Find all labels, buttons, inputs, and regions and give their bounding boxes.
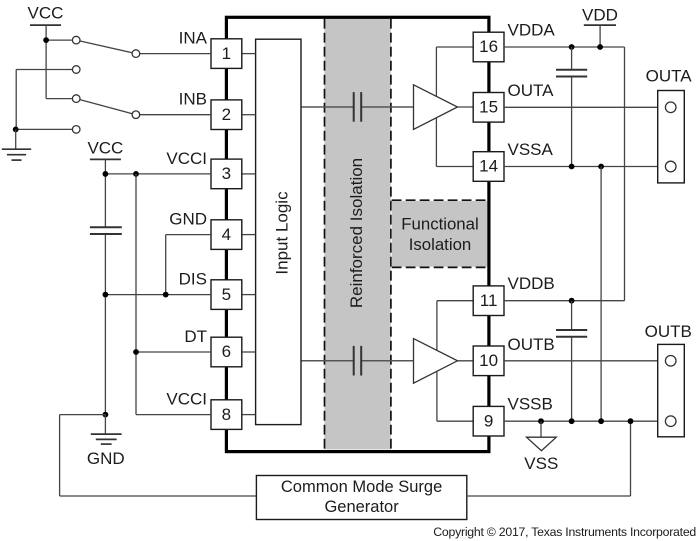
pin 16 box [473,32,504,62]
wire: VCC2 stem down to cap C1 [104,159,106,226]
wire: pin4 GND to DIS net [166,235,211,295]
label GND pin4 [169,210,207,229]
svg-text:Reinforced Isolation: Reinforced Isolation [347,158,366,308]
node: VSSB/cap junction [569,418,575,424]
svg-text:GND: GND [87,449,125,468]
label VDDA [508,21,556,40]
svg-text:16: 16 [479,37,498,56]
copyright note [433,525,696,539]
pin 1 box [211,39,242,69]
wire: cap C2 top [571,47,573,69]
label VSSB [508,395,553,414]
svg-text:2: 2 [222,105,231,124]
pin 14 box [473,152,504,182]
svg-text:VSSA: VSSA [508,140,554,159]
svg-text:OUTA: OUTA [646,67,693,86]
power symbol VCC (top left) [28,3,64,25]
wire: VCCI to DT and pin8 [136,174,211,415]
label VCCI pin8 [166,390,207,409]
capacitor C3 (VDDB bypass) [556,330,587,337]
node: VDDB/cap junction [569,298,575,304]
pin 15 box [473,93,504,123]
pin 9 box [473,406,504,436]
svg-text:VDDB: VDDB [508,274,555,293]
ground symbol GND (bottom left) [87,415,125,469]
node: pin4/DIS junction [163,292,169,298]
svg-text:8: 8 [222,405,231,424]
isolation band fill [325,19,391,450]
label VSSA [508,140,554,159]
wire: VDDB row pin11 [504,300,625,302]
node: VSSA/VSS-line junction [598,164,604,170]
connector OUTB [645,322,692,437]
svg-text:5: 5 [222,285,231,304]
svg-text:INB: INB [179,90,207,109]
svg-text:DT: DT [184,327,207,346]
node: DIS junction on GND line [103,292,109,298]
svg-text:INA: INA [179,29,208,48]
wire: pin5 to input logic [242,294,256,296]
wire: OUTB row pin10 to connector [504,360,666,362]
pin 6 box [211,337,242,367]
switch S2 contact circles [72,95,139,133]
wire: OUTA row pin15 to connector [504,106,666,108]
label OUTA [508,81,555,100]
wire: S1 ground throw [16,70,76,130]
svg-text:VDDA: VDDA [508,21,556,40]
svg-text:15: 15 [479,98,498,117]
switch S1 blade (INA) [76,40,136,54]
chip U1 body [226,17,489,451]
capacitor C1 (VCCI bypass) [90,227,122,234]
wire: VDDA row pin16 [504,47,625,301]
svg-text:Functional: Functional [401,214,478,233]
svg-text:9: 9 [484,411,493,430]
buffer A (triangle) [414,85,458,130]
capacitor C2 (VDDA bypass) [556,70,587,77]
pin 2 box [211,100,242,130]
ground symbol (top left) [2,129,31,160]
switch S1 contact circles [72,36,139,73]
node: VCCI junction on DT line [133,171,139,177]
node: VSSB/VSS-arrow junction [538,418,544,424]
pin 4 box [211,220,242,250]
label VCCI pin3 [166,149,207,168]
capacitor: isolation cap B [354,346,362,376]
wire: pin8 to input logic [242,414,256,416]
wire: GND to surge generator (left) [60,415,257,496]
input logic block [256,39,301,424]
svg-text:10: 10 [479,351,498,370]
svg-text:OUTA: OUTA [508,81,555,100]
wire: cap C3 top [571,301,573,330]
svg-text:14: 14 [479,157,498,176]
node: VDDA/VDD junction [597,44,603,50]
pin 11 box [473,286,504,316]
pin 3 box [211,159,242,189]
svg-text:VCC: VCC [28,3,64,22]
svg-text:6: 6 [222,342,231,361]
pin 10 box [473,346,504,376]
wire: cap C3 bottom to VSSB [571,338,573,422]
isolation band right dashed border [390,19,392,450]
wire: channel B signal (input logic to buffer B) [301,360,413,362]
common mode surge generator box [256,476,466,520]
power symbol VCC (second, left) [87,138,123,159]
node: ground junction [13,126,19,132]
wire: cap C2 bottom to VSSA [571,77,573,166]
svg-text:Isolation: Isolation [409,235,472,254]
wire: S2 ground throw [16,128,76,130]
wire: VSSB row pin9 [504,420,666,422]
svg-text:GND: GND [169,210,207,229]
wire: VSSA down to VSSB [600,167,602,422]
svg-text:4: 4 [222,225,231,244]
wire: cap C1 bottom to GND [104,235,106,415]
node: VCC junction [43,37,49,43]
label INA [179,29,208,48]
power symbol VDD (top right) [582,5,618,47]
svg-text:DIS: DIS [179,270,207,289]
wire: pin2 to input logic [242,114,256,116]
wire: DIS net [105,294,211,296]
node: VSSB/VSS-line junction [598,418,604,424]
wire: pin3 to input logic [242,173,256,175]
buffer B (triangle) [414,339,458,384]
svg-text:Input Logic: Input Logic [273,191,292,275]
node: VCCI junction on cap line [103,171,109,177]
svg-text:VDD: VDD [582,5,618,24]
label OUTB [508,335,555,354]
label DT pin6 [184,327,207,346]
node: GND junction (bottom left) [103,412,109,418]
label Reinforced Isolation (rotated) [347,158,366,308]
wire: buffer B supply rail [437,301,473,422]
wire: buffer A supply rail [436,47,473,167]
wire: pin6 to input logic [242,351,256,353]
functional isolation fill [392,201,488,267]
label VDDB [508,274,555,293]
node: VSSA/cap junction [569,164,575,170]
svg-text:Common Mode Surge: Common Mode Surge [281,478,442,496]
svg-text:VCCI: VCCI [166,390,207,409]
label DIS pin5 [179,270,207,289]
node: VSSB/surge junction [628,418,634,424]
wire: VSSA row pin14 [504,166,666,168]
pin 5 box [211,280,242,310]
wire: VCCI row to pin3 [105,173,211,175]
svg-text:OUTB: OUTB [508,335,555,354]
wire: pin4 to input logic [242,234,256,236]
svg-text:VCCI: VCCI [166,149,207,168]
wire: VCC stem to switch poles [46,25,76,99]
isolation band left dashed border [324,19,326,450]
wire: surge generator to VSSB (right) [467,421,631,496]
svg-text:OUTB: OUTB [645,322,692,341]
label INB [179,90,207,109]
connector OUTA [646,67,693,183]
svg-text:Generator: Generator [324,498,399,516]
svg-text:11: 11 [480,291,498,310]
VSS arrow symbol [524,421,558,473]
pin 8 box [211,400,242,430]
node: DT junction [133,349,139,355]
svg-text:3: 3 [222,164,231,183]
wire: pin1 to input logic [242,53,256,55]
svg-text:Copyright © 2017, Texas Instru: Copyright © 2017, Texas Instruments Inco… [433,525,696,539]
label Functional Isolation [401,214,478,254]
svg-text:VSS: VSS [524,454,558,473]
functional isolation bottom dashed border [392,266,488,268]
svg-text:VCC: VCC [87,138,123,157]
wire: switch S2 to INB pin2 [140,114,212,116]
node: VDDA/cap junction [569,44,575,50]
switch S2 blade (INB) [76,99,136,115]
functional isolation top dashed border [392,199,488,201]
wire: switch S1 to INA pin1 [140,53,212,55]
svg-text:1: 1 [222,44,231,63]
capacitor: isolation cap A [354,92,362,122]
svg-text:VSSB: VSSB [508,395,553,414]
wire: channel A signal (input logic to buffer A) [301,106,413,108]
